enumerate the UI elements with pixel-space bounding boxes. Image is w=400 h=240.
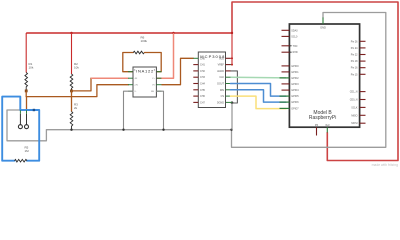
pin Pin 24 stub [360,47,366,49]
svg-text:CH0: CH0 [200,57,205,60]
raspberry pi U3 body [289,24,359,127]
svg-text:Pin 16: Pin 16 [351,67,358,70]
node ground junction MCP drop [230,129,232,131]
pin GPIO4 stub [282,89,290,91]
svg-text:made with fritzing: made with fritzing [372,163,398,167]
svg-text:DIN: DIN [220,89,224,92]
node MCP VREF [231,64,233,66]
node ground junction INA V- [122,129,124,131]
pin Pin 26 stub [360,40,366,42]
wire orange R3 top lead [71,91,73,112]
svg-text:SCL0: SCL0 [291,35,298,38]
pin GPIO3 stub [282,83,290,85]
svg-text:-IN: -IN [134,78,137,80]
pin CH4 stub [193,83,198,85]
wire gray INA pin4 V- to ground run [124,91,134,130]
pin MOSI stub [360,122,366,124]
svg-text:CH6: CH6 [200,95,205,98]
op-amp U1 INA122 body [133,67,156,97]
wire 3V3 rail [26,32,232,34]
svg-text:GPIO3: GPIO3 [291,83,299,86]
pin GPIO2 stub green [280,77,290,79]
svg-text:GND: GND [320,26,326,30]
svg-text:VREF: VREF [218,64,225,67]
pin DIN stub [226,89,231,91]
wire salmon INA pin7 to rail [156,34,173,78]
wire orange R2 node to INA pin2 (V-IN) [72,78,92,91]
svg-text:CH5: CH5 [200,89,205,92]
wire gray MCP AGND loop [231,71,238,103]
node R1 bottom junction [25,90,28,93]
resistor R1 top red lead [25,33,27,73]
node R2 bottom junction [70,90,73,93]
orange feedback rect around RG: left side to INA pin1 [123,53,133,72]
svg-text:CH7: CH7 [200,101,205,104]
svg-text:DGND: DGND [217,101,224,104]
op-amp U1 INA122 pin stubs [128,71,133,73]
node ground junction INA REF [162,129,164,131]
svg-text:GPIO1: GPIO1 [291,71,299,74]
svg-text:+IN: +IN [134,85,138,87]
svg-text:V-: V- [134,91,136,93]
svg-text:100k: 100k [141,39,148,43]
blue electrode loop wire [26,110,39,161]
svg-text:GPIO6: GPIO6 [291,101,299,104]
wire orange INA OUT to MCP CH0 [162,58,193,84]
svg-text:SDA0: SDA0 [291,29,298,32]
svg-text:GPIO2: GPIO2 [291,77,299,80]
adc U2 MCP3008 body [198,52,225,108]
svg-text:10k: 10k [74,65,79,69]
wire salmon into INA pin2 [91,77,129,79]
wire green INA pin6 OUT stub [156,84,162,86]
resistor R2 [70,74,73,91]
node MCP DGND junction [231,101,234,104]
svg-text:GPIO7: GPIO7 [291,107,299,110]
node rail junction INA V+ [172,32,174,34]
svg-text:CH4: CH4 [200,83,205,86]
wire red rail drop to MCP VDD/VREF [231,33,233,65]
svg-text:3v3: 3v3 [325,123,330,127]
svg-text:P6: P6 [315,123,319,127]
pin CLK stub [226,76,231,78]
pin Pin 15 stub [360,73,366,75]
pin CE0_N stub [360,99,366,101]
wire green MCP CLK to RPi GPIO2 [231,76,287,79]
pin AGND stub [226,70,231,72]
pin GPIO0 stub [282,65,290,67]
node blue junction dot [33,109,35,111]
pin RXD stub [282,51,290,53]
pin CH5 stub [193,89,198,91]
svg-text:VDD: VDD [219,57,224,60]
pin SCL0 stub [282,35,290,37]
pin GPIO6 stub green [280,101,290,103]
wire gray MCP DGND down [231,103,233,130]
pin VREF stub [226,64,231,66]
svg-text:VO: VO [152,85,155,87]
svg-text:MISO: MISO [351,114,357,117]
svg-text:RXD: RXD [293,51,298,54]
resistor R2 top red lead [71,33,73,74]
svg-text:RE: RE [151,91,155,93]
pin CE1_N stub [360,91,366,93]
pin DOUT stub [226,83,231,85]
svg-text:MOSI: MOSI [351,122,357,125]
electrode E2 right [26,110,28,114]
svg-text:CH3: CH3 [200,76,205,79]
svg-text:Pin 18: Pin 18 [351,60,358,63]
node MCP VDD [231,57,233,59]
wire 3V3 red loop top-right-bottom [232,2,398,161]
svg-text:GPIO5: GPIO5 [291,95,299,98]
svg-text:CE0_N: CE0_N [350,99,358,102]
wire green DGND stub [226,101,233,103]
svg-text:GPIO4: GPIO4 [291,89,299,92]
pin 3v3 stub green [326,127,328,132]
node ground junction R3 [70,129,72,131]
svg-text:2k: 2k [74,106,78,110]
pin GPIO7 stub green [280,107,290,109]
svg-text:Pin 26: Pin 26 [351,40,358,43]
svg-text:Pin 24: Pin 24 [351,47,358,50]
pin SCLK stub [360,106,366,108]
svg-text:DOUT: DOUT [217,83,224,86]
svg-text:SCLK: SCLK [351,106,358,109]
wire blue MCP DIN to RPi GPIO6 [231,90,287,102]
svg-text:TXD: TXD [293,45,298,48]
pin CH1 stub [193,64,198,66]
pin VDD stub [226,57,231,59]
svg-text:CH2: CH2 [200,70,205,73]
svg-text:CLK: CLK [219,76,224,79]
svg-text:Pin 22: Pin 22 [351,54,358,57]
pin GPIO5 stub green [280,95,290,97]
svg-text:CE1_N: CE1_N [350,91,358,94]
electrode E1 left [19,110,21,114]
svg-text:1M: 1M [25,149,30,153]
wire blue MCP DOUT to RPi GPIO5 [231,84,287,97]
svg-text:RaspberryPi: RaspberryPi [309,115,337,121]
pin CH6 stub [193,95,198,97]
svg-text:CS: CS [221,95,225,98]
wire gray INA pin5 REF to ground run [156,91,163,130]
pin GPIO1 stub [282,71,290,73]
node rail junction R2 [70,32,72,34]
svg-text:AGND: AGND [217,70,224,73]
wire orange right electrode up lead [25,91,27,110]
pin Pin 16 stub [360,67,366,69]
svg-text:INA122: INA122 [136,68,154,73]
node rail junction MCP drop [231,32,233,34]
wire yellow MCP CS to RPi GPIO7 [231,96,287,109]
pin CH0 stub green [193,57,198,59]
resistor RG horizontal [133,51,144,54]
svg-text:GPIO0: GPIO0 [291,65,299,68]
pin TXD stub [282,45,290,47]
resistor R5 on blue loop [15,159,28,162]
svg-text:Pin 15: Pin 15 [351,73,358,76]
pin P6 stub [316,127,318,135]
resistor R3 [70,112,73,130]
pin SDA0 stub [282,29,290,31]
pin MISO stub [360,114,366,116]
pin CS stub [226,95,231,97]
pin CH3 stub [193,76,198,78]
pin CH7 stub [193,101,198,103]
pin Pin 18 stub [360,60,366,62]
svg-text:10k: 10k [29,65,34,69]
resistor R1 [25,73,28,91]
wire orange electrode to INA pin3 (V+IN) [26,85,128,97]
orange feedback rect right side to INA pin8 [145,53,162,72]
pin Pin 22 stub [360,54,366,56]
pin GND top stub green [322,18,324,25]
pin CH2 stub [193,70,198,72]
wire gray main ground run [7,13,386,148]
svg-text:CH1: CH1 [200,64,205,67]
